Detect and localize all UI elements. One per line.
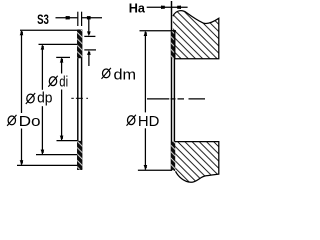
ØHD dimension line lower with down arrow	[144, 128, 148, 169]
housing top block	[173, 11, 219, 59]
dm lower arrow (up) with shaft to Ødm label	[87, 50, 91, 66]
S3 extension line right	[81, 12, 83, 26]
label ØHD	[127, 115, 136, 126]
washer lower hatched section (right figure)	[171, 142, 175, 170]
svg-text:HD: HD	[138, 113, 160, 130]
Ødi dimension line lower with down arrow	[60, 90, 64, 141]
washer top edge	[77, 29, 82, 31]
washer upper hatched section (right figure)	[171, 31, 175, 58]
bore top edge tick	[171, 30, 176, 32]
washer bottom edge	[77, 168, 82, 170]
svg-text:dp: dp	[37, 90, 52, 107]
centerline of housing	[147, 98, 205, 100]
Ødi top extension line	[56, 56, 70, 58]
S3 dimension line left segment with right arrow	[56, 16, 78, 20]
Ødi bottom extension line	[57, 140, 78, 142]
washer back face line	[173, 31, 175, 171]
svg-text:Ha: Ha	[129, 0, 146, 15]
ØDo dimension line upper with up arrow	[20, 31, 24, 113]
washer front face line	[171, 1, 173, 171]
ØDo dimension line lower with down arrow	[20, 129, 24, 166]
label ØDo	[7, 115, 16, 126]
ØHD bottom extension line	[138, 169, 171, 171]
Ødp dimension line upper with up arrow	[41, 45, 45, 90]
S3 dimension line right segment with left arrow	[82, 16, 102, 20]
Ha dimension line with outside arrows	[147, 6, 188, 10]
Ødp top extension line	[39, 43, 78, 45]
label Ødi	[48, 76, 57, 87]
dm lower tick	[84, 49, 96, 51]
washer upper hatched section	[77, 30, 82, 58]
svg-text:S3: S3	[37, 12, 49, 27]
housing bottom block	[175, 142, 219, 183]
label Ødm	[102, 68, 111, 79]
S3 extension line left	[77, 12, 79, 26]
washer lower hatched section	[77, 141, 82, 170]
Ødp dimension line lower with down arrow	[41, 106, 45, 154]
label Ødp	[26, 93, 35, 104]
Ødi dimension line upper with up arrow	[60, 58, 64, 74]
ØDo bottom extension line	[17, 164, 77, 166]
ØHD top extension line	[140, 30, 176, 32]
centerline of washer	[71, 97, 88, 99]
ØDo top extension line	[20, 29, 77, 31]
ØHD dimension line upper with up arrow	[144, 31, 148, 112]
dm upper tick	[84, 35, 95, 37]
svg-text:Do: Do	[19, 113, 41, 130]
washer outline right edge	[81, 30, 83, 170]
svg-text:di: di	[59, 74, 68, 91]
svg-text:dm: dm	[114, 67, 137, 84]
Ødp bottom extension line	[36, 154, 77, 156]
dm upper arrow (down) with shaft from S3 line	[87, 18, 91, 37]
washer outline left edge	[77, 30, 79, 170]
